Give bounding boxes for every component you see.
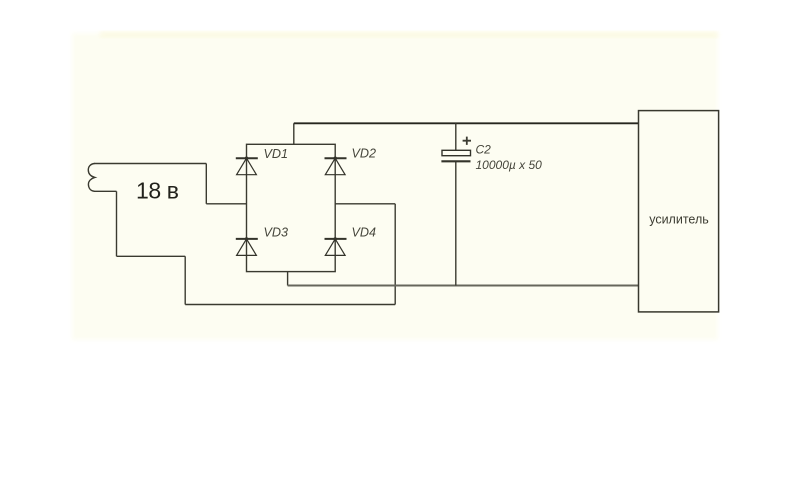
wire bridge AC right terminal: [335, 203, 395, 205]
wire horizontal mid-left: [117, 255, 186, 257]
wire minus rail to amplifier: [288, 285, 639, 287]
plus polarity mark: [463, 137, 471, 145]
svg-text:VD3: VD3: [264, 226, 289, 240]
wire down from secondary top: [205, 164, 207, 204]
wire up to bridge AC right: [394, 204, 396, 305]
svg-text:18 в: 18 в: [136, 178, 179, 204]
transformer secondary winding: [88, 164, 95, 192]
amplifier block: [639, 111, 719, 312]
capacitor C2: [441, 150, 470, 161]
svg-text:C2: C2: [476, 143, 492, 157]
wire plus rail to amplifier: [294, 122, 639, 124]
diode VD1: [236, 157, 258, 175]
svg-text:VD4: VD4: [352, 226, 377, 240]
wire capacitor top lead: [455, 123, 457, 150]
diode VD2: [325, 157, 347, 175]
svg-text:10000µ x 50: 10000µ x 50: [476, 158, 543, 172]
diode VD4: [325, 237, 347, 255]
wire bridge plus output up: [293, 123, 295, 144]
wire bridge minus output down: [287, 272, 289, 286]
wire to bridge AC left terminal: [206, 203, 246, 205]
wire secondary bottom lead: [94, 190, 117, 192]
wire secondary top lead: [94, 163, 206, 165]
svg-text:VD2: VD2: [352, 147, 377, 161]
wire bottom run to right: [185, 304, 395, 306]
bridge rectifier outline: [247, 144, 336, 271]
wire down left: [116, 191, 118, 256]
svg-text:VD1: VD1: [264, 147, 289, 161]
svg-text:усилитель: усилитель: [649, 212, 709, 226]
diode VD3: [236, 237, 258, 255]
wire down to bottom run: [184, 256, 186, 304]
wire capacitor bottom lead: [455, 161, 457, 285]
